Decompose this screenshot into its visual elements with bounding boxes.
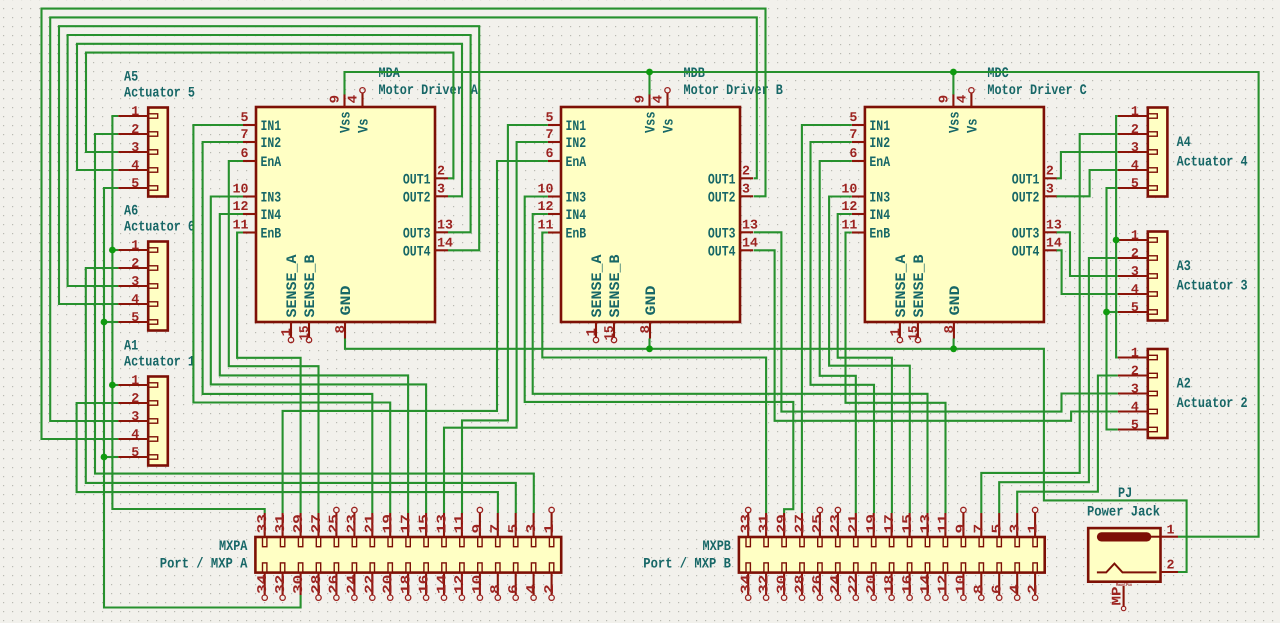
svg-text:A3: A3: [1177, 259, 1191, 275]
svg-text:EnB: EnB: [261, 227, 282, 243]
svg-text:Vs: Vs: [662, 119, 678, 134]
svg-text:28: 28: [792, 575, 807, 594]
svg-text:15: 15: [602, 325, 617, 340]
svg-text:9: 9: [633, 95, 648, 104]
svg-text:Vs: Vs: [966, 119, 982, 134]
svg-text:13: 13: [918, 514, 933, 533]
A5 pin 4: [118, 158, 158, 173]
svg-text:22: 22: [363, 575, 378, 594]
MXPB pin 21 (top): [846, 513, 861, 547]
svg-text:17: 17: [398, 514, 413, 533]
svg-text:14: 14: [434, 575, 449, 594]
MDB pin 12 IN4: [538, 199, 587, 224]
MXPA pin 11 (top): [452, 513, 467, 547]
MXPA pin 8 (bottom): [488, 563, 503, 601]
wire net A4-5/A3-5/A2-5: [1107, 188, 1118, 430]
MDA pin 4 Vs (unconnected): [346, 88, 373, 133]
svg-text:6: 6: [849, 146, 857, 161]
MDA pin 3 OUT2: [403, 181, 448, 206]
svg-text:5: 5: [1131, 418, 1139, 433]
svg-text:OUT2: OUT2: [708, 190, 736, 206]
wire MDB-OUT1 to A1-3: [50, 17, 757, 421]
svg-text:22: 22: [846, 575, 861, 594]
MXPB pin 34 (bottom): [739, 563, 754, 601]
svg-text:11: 11: [452, 514, 467, 533]
MXPB pin 31 (top): [756, 513, 771, 547]
svg-text:3: 3: [1046, 181, 1054, 196]
svg-text:OUT2: OUT2: [403, 190, 431, 206]
svg-text:34: 34: [255, 575, 270, 594]
MXPB pin 11 (top): [936, 513, 951, 547]
svg-text:29: 29: [291, 514, 306, 533]
svg-text:16: 16: [900, 575, 915, 594]
A6 pin 5: [118, 310, 158, 325]
svg-text:3: 3: [1131, 382, 1139, 397]
junction A-net at A1-5: [101, 454, 108, 461]
junction A-net at A6-1: [109, 247, 116, 254]
power jack PJ body: [1088, 528, 1160, 582]
svg-text:11: 11: [538, 218, 554, 233]
MXPB pin 16 (bottom): [900, 563, 915, 601]
svg-text:4: 4: [524, 584, 539, 594]
svg-text:12: 12: [841, 199, 857, 214]
MXPA pin 7 (top): [488, 513, 503, 547]
A2 pin 1: [1118, 346, 1158, 361]
svg-text:17: 17: [882, 514, 897, 533]
MDC pin 3 OUT2: [1012, 181, 1057, 206]
MXPA pin 31 (top): [273, 513, 288, 547]
wire MDB-OUT4 to A2-4: [754, 250, 1118, 420]
wire spur to A6-5: [104, 321, 118, 323]
MDA pin 2 OUT1: [403, 163, 448, 188]
wire GND bus MDA-8/MDB-8/MDC-8 to PJ-2: [345, 339, 1187, 573]
svg-text:2: 2: [1167, 558, 1175, 573]
A4 pin 4: [1118, 158, 1158, 173]
wire MDC-OUT1 to A4-3: [1057, 152, 1118, 178]
svg-text:Motor Driver C: Motor Driver C: [987, 83, 1087, 99]
MDB pin 11 EnB: [538, 218, 587, 243]
junction A-net at A1-1: [109, 382, 116, 389]
A3 pin 2: [1118, 246, 1158, 261]
wire MDB-IN2 to MXPA-13: [444, 142, 548, 513]
svg-text:6: 6: [241, 146, 249, 161]
svg-text:IN3: IN3: [869, 191, 890, 207]
MXPB pin 25 (top): [810, 507, 825, 546]
MXPA pin 25 (top): [327, 507, 342, 546]
svg-text:8: 8: [488, 584, 503, 594]
svg-text:4: 4: [346, 95, 361, 104]
wire MDC GND spur: [953, 339, 955, 349]
svg-text:IN1: IN1: [566, 119, 587, 135]
MXPA pin 10 (bottom): [470, 563, 485, 601]
MDC pin 6 EnA: [849, 146, 890, 171]
svg-text:Actuator 6: Actuator 6: [124, 220, 195, 236]
A6 pin 2: [118, 256, 158, 271]
svg-text:A5: A5: [124, 70, 138, 86]
svg-text:SENSE_B: SENSE_B: [303, 254, 319, 317]
MDA pin 5 IN1: [241, 110, 282, 135]
svg-text:26: 26: [810, 575, 825, 594]
svg-text:SENSE_A: SENSE_A: [590, 254, 606, 317]
MXPB pin 26 (bottom): [810, 563, 825, 601]
MXPB pin 24 (bottom): [828, 563, 843, 601]
svg-text:7: 7: [972, 524, 987, 534]
wire MDA-IN1 to MXPA-19: [193, 125, 390, 513]
wire spur to A3-5: [1107, 311, 1118, 313]
MDB pin 6 EnA: [546, 146, 587, 171]
wire MDC-IN2 to MXPB-19: [811, 142, 875, 513]
svg-text:2: 2: [1131, 364, 1139, 379]
svg-text:12: 12: [936, 575, 951, 594]
svg-text:5: 5: [241, 110, 249, 125]
MDB pin 8 GND: [638, 285, 660, 338]
MDC pin 4 Vs (unconnected): [955, 88, 982, 133]
svg-text:4: 4: [131, 158, 139, 173]
wire net A5-1/A6-1/A1-1 to MXPA-33: [112, 116, 264, 513]
svg-text:31: 31: [273, 514, 288, 533]
MDB pin 4 Vs (unconnected): [651, 88, 678, 133]
wire MDC-IN3 to MXPB-15: [829, 197, 910, 514]
MXPB pin 19 (top): [864, 513, 879, 547]
svg-text:26: 26: [327, 575, 342, 594]
MXPA pin 1 (top): [542, 507, 557, 546]
svg-text:7: 7: [546, 127, 554, 142]
MXPA pin 5 (top): [506, 513, 521, 547]
svg-text:3: 3: [524, 524, 539, 534]
MDB pin 1 SENSE_A (unconnected): [584, 254, 606, 342]
wire net A4-1/A3-1/A2-1: [1116, 116, 1118, 358]
junction right A-net at A3-5: [1103, 309, 1110, 316]
svg-text:18: 18: [882, 575, 897, 594]
svg-text:Vss: Vss: [339, 112, 355, 134]
svg-text:2: 2: [1131, 246, 1139, 261]
MXPA pin 26 (bottom): [327, 563, 342, 601]
MDA pin 10 IN3: [233, 182, 282, 207]
svg-text:GND: GND: [644, 285, 660, 315]
MXPA pin 21 (top): [363, 513, 378, 547]
MXPB pin 33 (top): [739, 507, 754, 546]
MXPA pin 18 (bottom): [398, 563, 413, 601]
svg-text:Actuator 3: Actuator 3: [1177, 279, 1248, 295]
svg-text:1: 1: [1167, 523, 1175, 538]
svg-text:7: 7: [849, 127, 857, 142]
svg-text:SENSE_B: SENSE_B: [608, 254, 624, 317]
svg-text:Actuator 2: Actuator 2: [1177, 396, 1248, 412]
wire A3-2 to MXPB-5: [999, 258, 1118, 513]
PJ pin 2: [1161, 558, 1179, 573]
MXPB pin 23 (top): [828, 507, 843, 546]
MXPA pin 9 (top): [470, 507, 485, 546]
MXPA pin 15 (top): [416, 513, 431, 547]
svg-text:5: 5: [131, 176, 139, 191]
wire MDB-IN3 to MXPB-29: [525, 197, 794, 514]
svg-text:25: 25: [810, 514, 825, 533]
wire MDB Vss spur: [648, 72, 650, 95]
svg-text:2: 2: [131, 391, 139, 406]
wire A4-2 to MXPB-7: [981, 134, 1118, 513]
wire spur to A3-1: [1116, 239, 1118, 241]
MXPA pin 16 (bottom): [416, 563, 431, 601]
svg-text:Actuator 4: Actuator 4: [1177, 155, 1248, 171]
svg-text:10: 10: [470, 575, 485, 594]
svg-text:1: 1: [131, 238, 139, 253]
svg-text:15: 15: [297, 325, 312, 340]
A5 pin 1: [118, 104, 158, 119]
MXPA pin 19 (top): [381, 513, 396, 547]
connector A1 (Actuator 1) body: [148, 377, 168, 466]
MXPA pin 28 (bottom): [309, 563, 324, 601]
PJ pin 1: [1161, 523, 1179, 538]
svg-text:5: 5: [131, 310, 139, 325]
MXPA pin 13 (top): [434, 513, 449, 547]
MDB pin 10 IN3: [538, 182, 587, 207]
svg-text:MDB: MDB: [684, 66, 706, 82]
svg-text:3: 3: [131, 409, 139, 424]
svg-text:3: 3: [131, 140, 139, 155]
connector A5 (Actuator 5) body: [148, 108, 168, 197]
svg-text:10: 10: [538, 182, 554, 197]
wire MDA-EnA to MXPA-27: [229, 161, 319, 513]
MDC pin 2 OUT1: [1012, 163, 1057, 188]
MDB pin 7 IN2: [546, 127, 587, 152]
MXPB pin 8 (bottom): [972, 563, 987, 601]
svg-text:3: 3: [1131, 140, 1139, 155]
svg-text:14: 14: [437, 235, 453, 250]
svg-text:23: 23: [828, 514, 843, 533]
svg-text:EnB: EnB: [869, 227, 890, 243]
svg-text:MDA: MDA: [379, 66, 401, 82]
svg-text:A6: A6: [124, 204, 138, 220]
svg-text:14: 14: [1046, 235, 1062, 250]
junction right A-net at A3-1: [1113, 237, 1120, 244]
svg-text:1: 1: [131, 104, 139, 119]
svg-text:OUT1: OUT1: [403, 172, 431, 188]
svg-text:OUT4: OUT4: [708, 244, 736, 260]
svg-text:5: 5: [131, 445, 139, 460]
MDC pin 7 IN2: [849, 127, 890, 152]
wire A6-2 to MXPA-5: [86, 268, 516, 513]
svg-text:SENSE_A: SENSE_A: [894, 254, 910, 317]
svg-text:2: 2: [437, 163, 445, 178]
svg-text:A1: A1: [124, 339, 138, 355]
A5 pin 5: [118, 176, 158, 191]
svg-text:20: 20: [864, 575, 879, 594]
svg-text:OUT3: OUT3: [1012, 226, 1040, 242]
svg-text:15: 15: [906, 325, 921, 340]
wire MDA-OUT2 to A5-4: [77, 44, 462, 197]
svg-text:11: 11: [936, 514, 951, 533]
svg-text:MXPA: MXPA: [219, 539, 248, 555]
svg-text:7: 7: [241, 127, 249, 142]
junction GND bus at MDC-8: [950, 345, 957, 352]
wire MDB-OUT3 to A2-3: [754, 232, 1118, 411]
MXPB pin 29 (top): [774, 513, 789, 547]
MXPB pin 30 (bottom): [774, 563, 789, 601]
svg-text:8: 8: [942, 325, 957, 334]
MDC pin 5 IN1: [849, 110, 890, 135]
svg-text:13: 13: [742, 217, 758, 232]
svg-text:4: 4: [1131, 158, 1139, 173]
A4 pin 1: [1118, 104, 1158, 119]
A6 pin 3: [118, 274, 158, 289]
motor driver IC MDA (Motor Driver A): [256, 107, 435, 322]
svg-text:12: 12: [233, 199, 249, 214]
svg-text:5: 5: [546, 110, 554, 125]
wire A2-2 to MXPB-3: [1017, 376, 1118, 514]
svg-text:19: 19: [864, 514, 879, 533]
MXPB pin 17 (top): [882, 513, 897, 547]
svg-text:9: 9: [954, 524, 969, 534]
svg-text:IN2: IN2: [869, 136, 890, 152]
svg-text:5: 5: [1131, 300, 1139, 315]
svg-text:2: 2: [1025, 584, 1040, 594]
svg-text:Motor Driver A: Motor Driver A: [379, 83, 479, 99]
MDA pin 9 Vss: [328, 94, 355, 133]
connector MXPA (Port / MXP A) body: [255, 537, 561, 573]
svg-text:1: 1: [131, 373, 139, 388]
A3 pin 3: [1118, 264, 1158, 279]
MXPA pin 30 (bottom): [291, 563, 306, 595]
wire spur to A1-5: [104, 456, 118, 458]
svg-text:2: 2: [542, 584, 557, 594]
MXPB pin 6 (bottom): [990, 563, 1005, 601]
junction Vss bus at MDB: [646, 69, 653, 76]
svg-text:Port / MXP B: Port / MXP B: [643, 557, 731, 573]
wire spur to A6-1: [112, 249, 118, 251]
svg-text:2: 2: [131, 256, 139, 271]
MXPB pin 10 (bottom): [954, 563, 969, 601]
svg-text:3: 3: [742, 181, 750, 196]
svg-text:4: 4: [1131, 400, 1139, 415]
svg-text:EnA: EnA: [566, 155, 587, 171]
junction GND bus at MDB-8: [646, 345, 653, 352]
MXPA pin 33 (top): [255, 513, 270, 547]
svg-text:A4: A4: [1177, 135, 1191, 151]
MDB pin 14 OUT4: [708, 235, 758, 260]
MXPB pin 9 (top): [954, 507, 969, 546]
wire MDB GND spur: [648, 339, 650, 349]
A4 pin 5: [1118, 176, 1158, 191]
connector A3 (Actuator 3) body: [1148, 232, 1168, 321]
MXPA pin 27 (top): [309, 513, 324, 547]
A1 pin 4: [118, 427, 158, 442]
MXPB pin 18 (bottom): [882, 563, 897, 601]
svg-text:12: 12: [452, 575, 467, 594]
svg-text:MXPB: MXPB: [703, 539, 732, 555]
svg-text:Vs: Vs: [357, 119, 373, 134]
svg-text:EnA: EnA: [869, 155, 890, 171]
wire MDC-OUT4 to A3-4: [1057, 250, 1118, 294]
MXPB pin 22 (bottom): [846, 563, 861, 601]
svg-text:30: 30: [291, 575, 306, 594]
MXPB pin 4 (bottom): [1008, 563, 1023, 601]
A6 pin 4: [118, 292, 158, 307]
svg-text:15: 15: [416, 514, 431, 533]
wire MDB-EnA to MXPA-31: [283, 161, 548, 513]
motor driver IC MDC (Motor Driver C): [865, 107, 1044, 322]
MXPA pin 20 (bottom): [381, 563, 396, 601]
svg-text:8: 8: [638, 325, 653, 334]
wire Vss bus MDA-9 to PJ-1 (top/right power rail): [345, 72, 1259, 537]
A1 pin 5: [118, 445, 158, 460]
svg-text:4: 4: [955, 95, 970, 104]
svg-text:1: 1: [1131, 104, 1139, 119]
MXPB pin 13 (top): [918, 513, 933, 547]
MXPA pin 3 (top): [524, 513, 539, 547]
A3 pin 1: [1118, 228, 1158, 243]
svg-text:1: 1: [279, 328, 294, 337]
wire MDC-IN4 to MXPB-17: [838, 214, 892, 513]
MXPB pin 15 (top): [900, 513, 915, 547]
MXPB pin 20 (bottom): [864, 563, 879, 601]
MDA pin 8 GND: [333, 285, 355, 338]
svg-text:6: 6: [506, 584, 521, 594]
svg-text:1: 1: [1131, 346, 1139, 361]
connector A6 (Actuator 6) body: [148, 242, 168, 331]
MDB pin 2 OUT1: [708, 163, 753, 188]
MDB pin 9 Vss: [633, 94, 660, 133]
A4 pin 3: [1118, 140, 1158, 155]
svg-text:27: 27: [792, 514, 807, 533]
svg-text:IN2: IN2: [566, 136, 587, 152]
junction Vss bus at MDC: [950, 69, 957, 76]
wire MDC Vss spur: [952, 72, 954, 95]
A3 pin 4: [1118, 282, 1158, 297]
svg-text:2: 2: [1131, 122, 1139, 137]
svg-text:2: 2: [742, 163, 750, 178]
svg-text:EnA: EnA: [261, 155, 282, 171]
svg-text:2: 2: [131, 122, 139, 137]
svg-text:18: 18: [398, 575, 413, 594]
svg-text:4: 4: [131, 427, 139, 442]
svg-text:9: 9: [937, 95, 952, 104]
A2 pin 5: [1118, 418, 1158, 433]
mounting pin MP (unconnected): [1110, 582, 1133, 611]
MXPA pin 2 (bottom): [542, 563, 557, 601]
MDC pin 9 Vss: [937, 94, 964, 133]
MDB pin 15 SENSE_B (unconnected): [602, 254, 624, 342]
svg-text:9: 9: [328, 95, 343, 104]
MDC pin 1 SENSE_A (unconnected): [888, 254, 910, 342]
svg-text:10: 10: [954, 575, 969, 594]
svg-text:Vss: Vss: [948, 112, 964, 134]
svg-text:23: 23: [345, 514, 360, 533]
MXPA pin 22 (bottom): [363, 563, 378, 601]
svg-text:EnB: EnB: [566, 227, 587, 243]
MXPB pin 28 (bottom): [792, 563, 807, 601]
svg-text:20: 20: [381, 575, 396, 594]
svg-text:5: 5: [990, 524, 1005, 534]
svg-text:29: 29: [774, 514, 789, 533]
svg-text:6: 6: [990, 584, 1005, 594]
svg-text:10: 10: [841, 182, 857, 197]
MDC pin 13 OUT3: [1012, 217, 1062, 242]
A1 pin 1: [118, 373, 158, 388]
A3 pin 5: [1118, 300, 1158, 315]
svg-text:7: 7: [488, 524, 503, 534]
svg-text:OUT4: OUT4: [403, 244, 431, 260]
svg-text:Actuator 5: Actuator 5: [124, 86, 195, 102]
MXPA pin 32 (bottom): [273, 563, 288, 601]
svg-text:33: 33: [255, 514, 270, 533]
svg-text:11: 11: [841, 218, 857, 233]
svg-text:OUT4: OUT4: [1012, 244, 1040, 260]
svg-text:Motor Driver B: Motor Driver B: [684, 83, 784, 99]
svg-text:4: 4: [1008, 584, 1023, 594]
svg-text:3: 3: [131, 274, 139, 289]
MDA pin 11 EnB: [233, 218, 282, 243]
svg-text:8: 8: [333, 325, 348, 334]
